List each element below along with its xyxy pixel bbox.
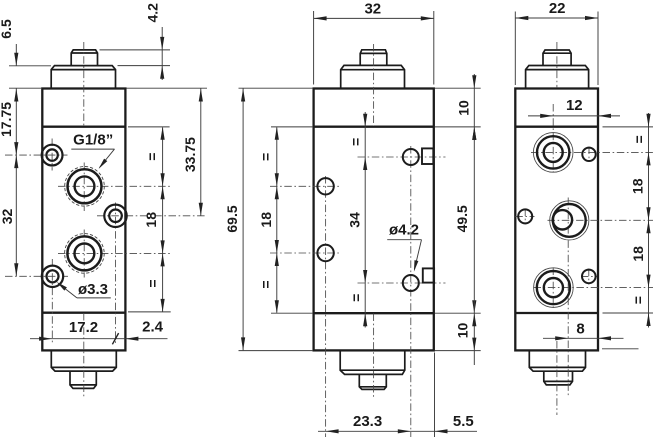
right view small hole row 1 — [582, 148, 595, 161]
dimension 33.75 — [127, 88, 208, 216]
right view port row 3 — [534, 268, 574, 308]
middle view top nub — [360, 50, 387, 66]
svg-text:8: 8 — [576, 321, 584, 338]
svg-text:12: 12 — [566, 97, 583, 114]
dimension 2.4 bottom — [125, 319, 163, 341]
svg-text:=: = — [144, 279, 160, 287]
right view port row 2 eccentric — [550, 201, 589, 240]
right view bottom nub — [544, 371, 573, 385]
right view divider line upper — [515, 126, 598, 128]
dimension 34 middle — [346, 212, 367, 283]
left view divider line upper — [42, 126, 125, 128]
right view horizontal centerline row 2 — [548, 219, 653, 221]
svg-text:33.75: 33.75 — [182, 137, 198, 172]
left view bottom cap — [51, 350, 116, 371]
dimension 23.3 bottom — [318, 413, 477, 434]
svg-text:18: 18 — [630, 246, 646, 262]
svg-text:17.75: 17.75 — [0, 102, 14, 137]
middle view right hole lower with boss — [403, 268, 434, 291]
svg-text:=: = — [257, 153, 273, 161]
right view vertical centerline port column — [552, 104, 554, 310]
svg-text:G1/8”: G1/8” — [73, 131, 113, 148]
dimension 4.2 top — [100, 3, 171, 80]
svg-text:32: 32 — [364, 0, 381, 17]
svg-text:18: 18 — [143, 212, 159, 228]
middle view left hole upper — [317, 178, 333, 194]
dimension 17.75 left margin — [0, 102, 18, 155]
left view divider line lower — [42, 312, 125, 314]
right view centerline small hole left — [515, 209, 534, 225]
middle view horizontal centerline right hole 2 — [358, 282, 446, 284]
svg-text:=: = — [631, 135, 647, 143]
right view vertical centerline main axis — [556, 42, 558, 415]
dimension 10 upper right — [435, 74, 481, 142]
svg-text:ø3.3: ø3.3 — [78, 281, 108, 298]
dimension 18 right chain — [143, 186, 165, 253]
left view horizontal centerline small hole 2 — [5, 275, 68, 277]
dimension 18 middle left chain — [258, 186, 279, 253]
left view vertical centerline small hole column — [51, 139, 53, 345]
middle view horizontal centerline left hole 2 — [270, 252, 342, 254]
svg-text:=: = — [348, 138, 364, 146]
svg-text:69.5: 69.5 — [224, 205, 240, 232]
right view vertical centerline middle port column — [567, 198, 569, 397]
dimension equal lower right chain — [128, 253, 171, 312]
left view small hole bottom-left — [42, 266, 63, 287]
right view top operator cap — [526, 66, 589, 89]
left view horizontal centerline small hole 1 — [5, 154, 68, 156]
label diameter 3.3 with leader arrow — [57, 281, 111, 298]
middle view horizontal centerline right hole 1 — [358, 156, 446, 158]
dimension equal upper 34 chain — [348, 112, 368, 328]
dimension 10 lower right — [435, 298, 481, 365]
right view port row 1 — [533, 133, 573, 173]
left view horizontal centerline medium hole — [97, 215, 207, 217]
dimension 18 upper far right chain — [630, 178, 651, 220]
dimension 12 — [528, 97, 620, 118]
dimension equal lower 34 chain — [348, 294, 367, 326]
svg-text:10: 10 — [455, 100, 471, 116]
dimension 5.5 bottom — [435, 353, 474, 438]
label diameter 4.2 with leader arrow — [387, 221, 421, 271]
dimension 69.5 left — [224, 88, 313, 350]
dimension equal lower far right chain — [602, 296, 653, 349]
right view bottom cap — [529, 350, 585, 371]
middle view body outline — [314, 89, 434, 351]
middle view vertical centerline right hole column — [410, 146, 412, 437]
svg-text:22: 22 — [549, 0, 566, 17]
middle view vertical centerline left hole column — [325, 176, 327, 437]
dimension 6.5 left margin — [0, 19, 51, 276]
right view centerline small hole row1 — [588, 147, 590, 163]
right view centerline small hole row3 — [581, 269, 597, 285]
right view horizontal centerline row 3 — [534, 287, 653, 289]
middle view left hole lower — [317, 245, 333, 261]
left view horizontal centerline port 2 — [58, 252, 171, 254]
dimension equal upper far right chain — [603, 113, 653, 328]
svg-text:5.5: 5.5 — [453, 413, 474, 430]
svg-text:2.4: 2.4 — [142, 319, 164, 336]
label G1/8 with leader arrow — [71, 131, 114, 169]
left view body outline — [42, 89, 125, 351]
svg-text:=: = — [348, 294, 364, 302]
dimension equal upper left chain — [257, 127, 313, 313]
dimension 32 top — [314, 0, 434, 84]
dimension 18 lower far right chain — [630, 220, 650, 287]
svg-text:23.3: 23.3 — [353, 413, 382, 430]
svg-text:4.2: 4.2 — [145, 3, 161, 23]
right view body outline — [515, 89, 598, 351]
svg-text:=: = — [144, 153, 160, 161]
left view top operator cap — [51, 66, 115, 89]
svg-text:=: = — [630, 296, 646, 304]
left view top nub — [71, 50, 97, 66]
middle view vertical centerline main axis — [373, 44, 375, 398]
left view medium hole right — [104, 205, 126, 227]
left view horizontal centerline port 1 — [58, 185, 171, 187]
left view small hole top-left — [42, 145, 63, 166]
middle view bottom nub — [359, 374, 386, 389]
right view divider line lower — [515, 312, 598, 314]
svg-text:18: 18 — [630, 178, 646, 194]
middle view right hole upper with boss — [403, 148, 434, 165]
middle view top operator cap — [341, 65, 405, 88]
svg-text:17.2: 17.2 — [69, 319, 98, 336]
middle view divider line upper — [314, 126, 434, 128]
left view vertical centerline medium hole column — [115, 203, 117, 345]
dimension 49.5 right — [454, 127, 477, 313]
dimension 8 bottom — [543, 321, 624, 341]
left view vertical centerline main axis — [83, 42, 85, 398]
svg-text:6.5: 6.5 — [0, 19, 14, 39]
left view G1/8 port upper — [65, 167, 105, 207]
svg-text:32: 32 — [0, 209, 15, 225]
dimension 32 left margin — [0, 155, 18, 276]
dimension 17.2 bottom — [30, 319, 168, 344]
dimension equal lower left chain — [257, 253, 313, 313]
middle view bottom cap — [340, 350, 405, 374]
right view horizontal centerline row 1 — [531, 151, 653, 153]
svg-text:=: = — [257, 280, 273, 288]
svg-text:18: 18 — [258, 212, 274, 228]
svg-text:49.5: 49.5 — [454, 205, 470, 232]
svg-text:10: 10 — [455, 323, 471, 339]
right view small hole row 3 — [582, 270, 596, 284]
left view G1/8 port lower — [65, 234, 105, 274]
svg-text:34: 34 — [346, 212, 362, 228]
dimension 22 top — [515, 0, 598, 85]
dimension equal upper right chain — [128, 127, 170, 312]
middle view horizontal centerline left hole 1 — [270, 185, 342, 187]
middle view divider line lower — [314, 312, 434, 314]
right view top nub — [543, 50, 571, 66]
svg-text:ø4.2: ø4.2 — [389, 221, 419, 238]
left view bottom nub — [70, 371, 96, 388]
right view small hole row 2 left — [518, 209, 532, 223]
